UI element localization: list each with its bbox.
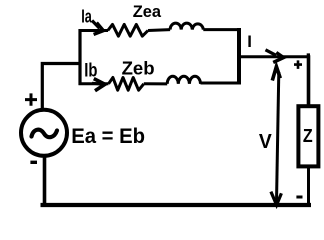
- AC source sine symbol: [32, 130, 58, 138]
- load Z (box): [298, 106, 318, 166]
- svg-text:Zeb: Zeb: [122, 57, 155, 78]
- wire: bottom rail: [41, 203, 312, 207]
- svg-text:Ia: Ia: [81, 5, 92, 26]
- voltage arrow V (double headed vertical): [277, 72, 279, 202]
- minus sign at load bottom: [296, 196, 302, 199]
- wire: top branch right segment to right bar: [203, 28, 240, 31]
- resistor Zea (zigzag): [108, 24, 148, 36]
- wire: top branch between resistor and inductor: [148, 28, 170, 32]
- current arrow Ib (on bottom branch): [92, 82, 101, 86]
- current arrow I (diagonal on output wire): [266, 50, 277, 56]
- current arrow Ia (diagonal onto top branch): [92, 21, 100, 29]
- inductor Lea (3 humps): [170, 23, 203, 29]
- plus sign at source top: [25, 93, 37, 105]
- wire: right junction vertical bar: [237, 28, 241, 85]
- wire: output horizontal to right corner and down to load: [239, 55, 309, 58]
- resistor Zeb (zigzag): [109, 78, 144, 91]
- wire: left vertical from source bottom to bottom rail: [43, 156, 47, 206]
- svg-text:Ea = Eb: Ea = Eb: [71, 125, 145, 148]
- svg-text:V: V: [259, 130, 272, 153]
- wire: bottom branch right segment to right bar: [201, 82, 241, 85]
- wire: left vertical from source top up to connector: [42, 64, 80, 110]
- wire: from load bottom to bottom rail: [307, 166, 310, 205]
- svg-text:Zea: Zea: [133, 2, 162, 21]
- inductor Leb (3 humps): [167, 76, 200, 84]
- minus sign at source bottom: [30, 161, 37, 164]
- AC source V1 (circle): [21, 110, 67, 156]
- svg-text:Ib: Ib: [84, 60, 97, 82]
- wire: junction vertical bar at left of parallel branches: [78, 29, 81, 85]
- svg-text:Z: Z: [303, 126, 313, 146]
- wire: top branch left segment: [79, 29, 109, 32]
- svg-text:I: I: [247, 32, 252, 51]
- plus sign at load top: [294, 60, 302, 69]
- wire: bottom branch left segment: [79, 82, 109, 85]
- wire: bottom branch between resistor and inductor: [144, 82, 167, 85]
